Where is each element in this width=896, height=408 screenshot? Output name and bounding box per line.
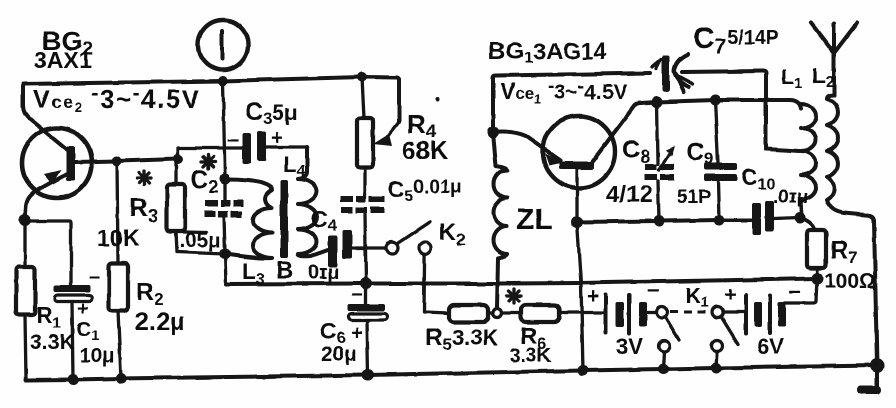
switch K2 xyxy=(386,222,431,254)
node: BG1 emitter junction xyxy=(487,126,499,138)
battery 3V xyxy=(606,295,656,333)
wire: R3 leads xyxy=(176,160,225,254)
wire: R4 top lead xyxy=(362,77,364,118)
coil L3 primary winding xyxy=(225,179,272,258)
node: C8 bottom xyxy=(654,216,665,227)
node: base line foot xyxy=(578,365,589,376)
asterisk mark near R3 xyxy=(137,171,151,185)
terminal below K1 right xyxy=(712,341,723,352)
stray ink speck xyxy=(435,97,439,101)
resistor R6 xyxy=(521,305,559,322)
svg-text:C35μ: C35μ xyxy=(245,98,298,128)
svg-text:.0ɪμ: .0ɪμ xyxy=(773,187,808,208)
resistor R2 xyxy=(109,161,128,379)
svg-text:R1: R1 xyxy=(36,302,62,332)
wire: BG2 base to R3 node xyxy=(75,159,178,162)
choke coil ZL xyxy=(493,132,507,308)
node: base junction xyxy=(571,216,583,228)
resistor R7 xyxy=(807,230,826,268)
wire: C10 right to L1 bottom node xyxy=(774,218,799,219)
node: C9 top xyxy=(710,95,721,106)
svg-text:+: + xyxy=(587,285,599,308)
base rail: BG1 base to C10 xyxy=(577,220,752,222)
wire: R4 wiper arrow from top rail corner xyxy=(373,122,399,146)
node: ground rail right end xyxy=(870,359,884,373)
svg-text:B: B xyxy=(276,257,293,284)
node: C9 bottom xyxy=(714,215,725,226)
capacitor C5 hatched plates xyxy=(340,196,384,213)
ammeter meter I xyxy=(198,20,248,70)
transistor BG1 xyxy=(493,102,657,221)
node: R3/C3/base junction xyxy=(173,154,183,164)
svg-text:Vce1-3~-4.5V: Vce1-3~-4.5V xyxy=(500,76,627,106)
line over .05u label xyxy=(184,230,206,234)
svg-text:L4: L4 xyxy=(283,152,305,180)
wire: R7 bottom to main rail xyxy=(815,268,818,279)
switch K1 xyxy=(657,307,739,345)
node: C10/L1/R7 junction xyxy=(795,213,806,224)
node: meter junction on top rail xyxy=(218,76,228,86)
svg-text:C4: C4 xyxy=(311,206,337,235)
svg-text:2.2μ: 2.2μ xyxy=(135,308,185,336)
wire: K2 down to R5 xyxy=(424,254,449,313)
svg-text:ZL: ZL xyxy=(516,203,553,236)
svg-text:4/12: 4/12 xyxy=(606,181,653,208)
svg-text:68K: 68K xyxy=(402,137,448,165)
node: C2/R3/L3 bottom junction xyxy=(220,249,231,260)
wire: C8 vertical xyxy=(657,102,659,221)
coil L4 secondary winding xyxy=(298,147,328,256)
coil L2 xyxy=(827,95,877,366)
svg-text:C8: C8 xyxy=(622,136,650,167)
svg-text:100Ω: 100Ω xyxy=(824,270,876,293)
node: C5/C6 junction on main rail xyxy=(360,278,372,290)
node: base junction (R2 tap) xyxy=(112,156,122,166)
svg-text:–: – xyxy=(789,278,801,303)
asterisk mark near R6 xyxy=(507,289,521,303)
wire: L3 bottom junction drop to main rail xyxy=(225,254,226,284)
capacitor C2 hatched plates xyxy=(204,200,243,218)
svg-text:R3: R3 xyxy=(129,192,158,226)
capacitor C3 plates xyxy=(242,133,251,164)
svg-text:51P: 51P xyxy=(677,187,711,208)
wire: vertical from meter junction down to C2/L3 node xyxy=(223,82,225,179)
terminal below K1 left xyxy=(659,341,670,352)
main middle rail xyxy=(226,279,817,285)
svg-text:R2: R2 xyxy=(136,278,164,309)
wire: node to R7 top xyxy=(800,218,815,231)
svg-text:–: – xyxy=(89,266,100,288)
capacitor C6 electrolytic xyxy=(348,283,387,375)
node: R2 bottom xyxy=(116,373,127,384)
svg-text:L2: L2 xyxy=(812,63,834,91)
svg-text:K2: K2 xyxy=(439,219,466,249)
wire: BG1 base down to ground rail xyxy=(577,222,583,371)
variable capacitor C8 hatched plates xyxy=(644,146,675,180)
BG1 collector box: Vce1 frame xyxy=(493,73,650,132)
svg-text:0ɪμ: 0ɪμ xyxy=(308,262,339,284)
wire: C4 to K2 xyxy=(352,246,386,249)
svg-text:3.3K: 3.3K xyxy=(30,331,74,354)
capacitor C10 plates xyxy=(752,203,761,235)
wire: main rail node down to 6V battery minus xyxy=(785,279,817,304)
wire: junction links xyxy=(488,311,521,314)
svg-text:+: + xyxy=(271,126,283,149)
svg-text:–: – xyxy=(351,282,363,305)
wire: C3 right lead to L4 top xyxy=(265,147,307,160)
node: R7 bottom on main rail xyxy=(811,273,823,285)
wire: C7 right to L1 tap xyxy=(682,71,799,151)
wire: C9 vertical xyxy=(715,100,719,220)
transistor BG2 xyxy=(22,128,92,220)
svg-text:6V: 6V xyxy=(757,334,784,359)
wire: C3 left lead xyxy=(178,148,242,159)
battery 6V xyxy=(724,295,786,333)
svg-text:L3: L3 xyxy=(242,258,265,288)
svg-text:+: + xyxy=(724,283,736,306)
node: C1 bottom xyxy=(68,374,79,385)
svg-text:BG13AG14: BG13AG14 xyxy=(488,38,607,67)
transformer core B xyxy=(280,180,288,258)
svg-text:3.3K: 3.3K xyxy=(509,345,552,367)
wire: R4 bottom to C5 xyxy=(365,167,366,283)
node: C6 bottom xyxy=(362,369,374,381)
variable capacitor C7 xyxy=(652,54,693,92)
wire: collector rail to C9/L1 xyxy=(657,100,801,109)
svg-text:3V: 3V xyxy=(616,334,643,359)
node: C8 top xyxy=(652,97,663,108)
node: stub feet xyxy=(658,364,669,375)
svg-text:10K: 10K xyxy=(97,225,140,251)
capacitor C1 electrolytic xyxy=(27,221,92,380)
antenna xyxy=(811,23,857,95)
capacitor C9 plates xyxy=(704,163,737,170)
node: R4 top junction xyxy=(357,72,367,82)
node: R5/R6 junction open circle xyxy=(493,309,502,318)
svg-text:C1: C1 xyxy=(76,318,100,344)
ground symbol xyxy=(857,366,881,395)
svg-text:–: – xyxy=(227,128,239,151)
node: emitter junction xyxy=(19,214,31,226)
capacitor C4 plates xyxy=(328,236,337,267)
resistor R5 xyxy=(449,305,488,322)
resistor R3 xyxy=(167,184,185,231)
svg-text:Vce2-3~-4.5V: Vce2-3~-4.5V xyxy=(33,82,201,115)
node: C2/L3 top junction xyxy=(220,174,231,185)
svg-text:C2: C2 xyxy=(190,166,218,197)
wire: R6 to 3V battery xyxy=(559,311,606,314)
resistor R1 xyxy=(16,220,35,380)
coil L1 xyxy=(801,104,816,218)
wire: C2 stubs xyxy=(224,179,225,254)
svg-text:C75/14P: C75/14P xyxy=(693,22,779,58)
svg-text:R7: R7 xyxy=(830,236,858,267)
wire: terminal stubs to ground rail xyxy=(663,352,717,370)
svg-text:R53.3K: R53.3K xyxy=(425,324,498,354)
svg-text:K1: K1 xyxy=(685,283,709,311)
svg-text:C10: C10 xyxy=(741,164,776,193)
svg-text:–: – xyxy=(647,277,659,302)
svg-text:C50.01μ: C50.01μ xyxy=(388,176,462,205)
resistor R4 xyxy=(357,118,373,167)
svg-text:C9: C9 xyxy=(687,139,714,168)
asterisk mark near C2 xyxy=(201,155,215,169)
wire: top rail from BG2 collector to meter to R4 xyxy=(23,77,399,151)
svg-text:.05μ: .05μ xyxy=(179,229,221,252)
svg-text:10μ: 10μ xyxy=(80,345,114,367)
svg-text:3AX1: 3AX1 xyxy=(34,47,92,73)
svg-text:+: + xyxy=(77,299,88,320)
svg-text:20μ: 20μ xyxy=(321,343,357,366)
svg-text:L1: L1 xyxy=(781,66,802,92)
bottom ground rail xyxy=(26,366,877,381)
